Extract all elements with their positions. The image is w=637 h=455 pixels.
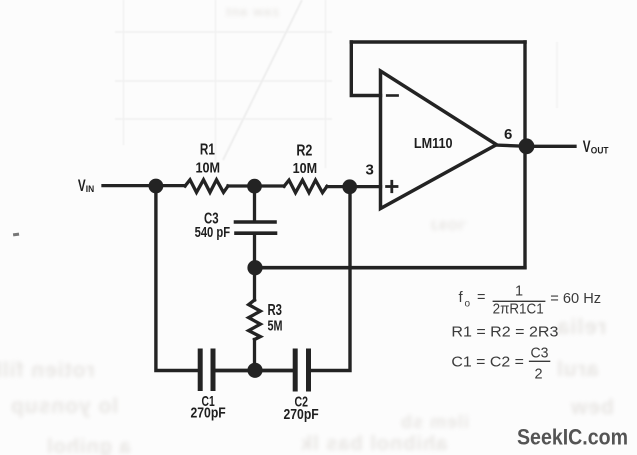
svg-text:V: V (78, 177, 86, 195)
svg-text:10M: 10M (293, 160, 318, 177)
svg-text:270pF: 270pF (284, 406, 319, 423)
svg-text:270pF: 270pF (191, 404, 226, 421)
svg-text:3: 3 (366, 162, 374, 179)
svg-text:SeekIC.com: SeekIC.com (517, 425, 628, 450)
svg-text:10M: 10M (196, 159, 221, 176)
svg-text:R1 = R2 = 2R3: R1 = R2 = 2R3 (451, 325, 558, 341)
svg-text:540 pF: 540 pF (195, 224, 231, 241)
svg-text:R2: R2 (296, 142, 312, 159)
svg-text:2πR1C1: 2πR1C1 (493, 302, 544, 318)
svg-text:OUT: OUT (591, 146, 609, 156)
svg-text:R1: R1 (200, 142, 215, 159)
svg-text:C1 = C2 =: C1 = C2 = (451, 355, 524, 371)
svg-text:=: = (477, 290, 485, 306)
svg-text:o: o (465, 298, 471, 309)
svg-text:5M: 5M (268, 318, 283, 335)
svg-text:LM110: LM110 (414, 136, 453, 152)
svg-text:1: 1 (515, 284, 523, 300)
svg-text:2: 2 (535, 367, 543, 383)
svg-text:R3: R3 (268, 302, 283, 319)
svg-text:= 60 Hz: = 60 Hz (550, 291, 601, 307)
svg-text:C3: C3 (531, 346, 549, 362)
svg-text:IN: IN (86, 184, 95, 195)
svg-text:V: V (583, 138, 591, 156)
svg-text:f: f (459, 289, 464, 306)
svg-text:6: 6 (504, 126, 512, 143)
